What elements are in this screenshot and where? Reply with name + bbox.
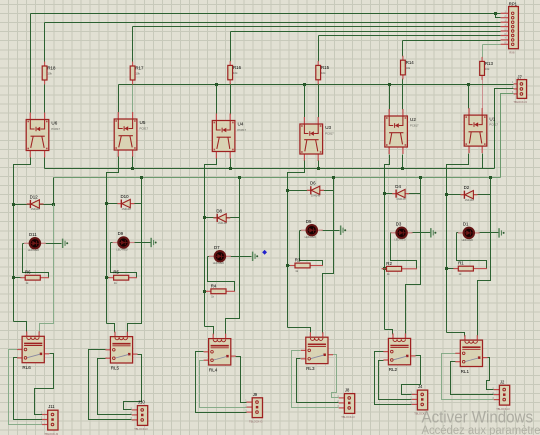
wire D1 cathode to ground <box>479 232 499 234</box>
svg-text:LED-RED: LED-RED <box>28 248 40 252</box>
wire U6 output to bus y168 <box>44 158 46 169</box>
wire R13 to U1 <box>482 80 484 109</box>
wire D1 to R1 <box>457 233 487 269</box>
svg-text:R6: R6 <box>25 270 31 275</box>
resistor R15 <box>316 61 330 84</box>
wire D7 cathode to ground <box>230 256 252 258</box>
wire RP1 pin6 bus to R15 <box>319 35 501 37</box>
svg-text:U3: U3 <box>325 125 331 130</box>
wire U1 emitter-left down to channel-left rail <box>447 154 469 333</box>
ground flag ch2 <box>430 228 436 237</box>
svg-text:1N4148: 1N4148 <box>311 194 321 198</box>
svg-text:PC817: PC817 <box>51 127 60 131</box>
svg-text:LED-RED: LED-RED <box>462 238 474 242</box>
wire D9 cathode to ground <box>134 242 151 244</box>
wire diode bus y177 <box>54 177 501 179</box>
wire R15 top feed <box>318 36 320 62</box>
LED D9 <box>113 231 135 251</box>
wire D6 cathode rail down to RL3 coil <box>323 191 334 334</box>
connector J10 TBLOCK-I3 <box>130 400 148 432</box>
wire RL5 common to J10 pin1 <box>124 355 142 410</box>
wire RL2 common to J4 pin1 <box>402 356 421 395</box>
ground flag ch4 <box>252 252 258 261</box>
wire D5 cathode to ground <box>322 230 340 232</box>
wire D5 to R3 <box>300 231 323 266</box>
diode D2 1N4148 <box>461 185 478 202</box>
svg-text:LED-RED: LED-RED <box>394 238 406 242</box>
svg-text:Accédez aux paramètre: Accédez aux paramètre <box>422 425 540 435</box>
svg-text:1N4148: 1N4148 <box>122 207 132 211</box>
wire D8 row <box>205 217 240 219</box>
svg-text:10k: 10k <box>406 66 411 70</box>
wire R14 to U2 <box>402 79 404 110</box>
op-amp U3 optocoupler PC817 <box>300 117 334 161</box>
wire left rail to RL2 coil+ <box>385 330 393 335</box>
svg-text:D7: D7 <box>214 245 220 250</box>
node marker (blue) near D7 <box>262 250 267 255</box>
svg-text:RL4: RL4 <box>209 367 218 372</box>
LED D7 <box>209 245 231 265</box>
wire rail to U5 input <box>118 85 120 113</box>
svg-text:RL2: RL2 <box>389 367 398 372</box>
wire left rail to RL3 coil+ <box>288 328 311 334</box>
svg-text:RL3: RL3 <box>306 366 315 371</box>
svg-text:R14: R14 <box>406 60 415 65</box>
op-amp U2 optocoupler PC817 <box>385 109 419 154</box>
wire R6 left to rail <box>14 277 22 279</box>
junction bus177 ch2 <box>419 176 422 179</box>
wire R4 left to rail <box>205 291 207 293</box>
svg-text:J4: J4 <box>418 384 423 389</box>
svg-text:D12: D12 <box>30 194 39 199</box>
wire D9 to R5 <box>111 243 137 278</box>
svg-text:TBLOCK-I3: TBLOCK-I3 <box>249 419 263 423</box>
resistor pack RP1 RX8 <box>501 1 519 54</box>
svg-text:U6: U6 <box>51 121 57 126</box>
junction bus177 ch5 <box>140 176 143 179</box>
wire U3 emitter-left down to channel-left rail <box>288 161 305 328</box>
junction R2/left rail <box>383 267 386 270</box>
svg-text:PC817: PC817 <box>489 123 498 127</box>
svg-text:PC817: PC817 <box>140 127 149 131</box>
wire R3 left to rail <box>288 265 291 267</box>
resistor R13 <box>480 57 494 80</box>
svg-text:10k: 10k <box>485 67 490 71</box>
svg-text:1N4148: 1N4148 <box>465 198 475 202</box>
junction rail/U1 <box>467 83 470 86</box>
diode D4 1N4148 <box>392 184 409 201</box>
diode D6 1N4148 <box>307 181 324 198</box>
svg-text:R4: R4 <box>211 283 217 288</box>
wire R5 left to rail <box>107 277 110 279</box>
svg-text:1N4148: 1N4148 <box>31 207 41 211</box>
wire RL1 NO to J2 pin2 <box>451 362 494 395</box>
diode D8 1N4148 <box>213 208 230 225</box>
wire rail to U4 input <box>216 85 218 115</box>
wire U4 output to bus y168 <box>230 159 232 169</box>
svg-text:J7: J7 <box>517 74 522 79</box>
resistor R6 <box>20 270 49 285</box>
svg-text:10k: 10k <box>233 71 238 75</box>
svg-text:TBLOCK-I3: TBLOCK-I3 <box>134 427 148 431</box>
svg-text:D4: D4 <box>395 184 401 189</box>
relay RL1 <box>455 335 487 374</box>
wire left rail to RL4 coil+ <box>205 327 214 335</box>
wire RL5 NC to J10 pin3 <box>89 350 132 420</box>
svg-text:D1: D1 <box>463 222 469 227</box>
relay RL6 <box>17 331 49 370</box>
connector J2 TBLOCK-I3 <box>492 379 510 411</box>
wire emitter bus y168 <box>45 168 495 170</box>
relay RL4 <box>204 334 236 373</box>
wire RL2 NC to J4 pin3 <box>375 352 412 405</box>
wire R16 to U4 <box>230 84 232 115</box>
junction D4 anode/left rail <box>383 192 386 195</box>
svg-text:R3: R3 <box>295 258 301 263</box>
wire left rail to RL6 coil+ <box>14 322 27 333</box>
wire U5 emitter-left down to channel-left rail <box>107 157 119 324</box>
wire R17 to U5 <box>132 85 134 113</box>
wire RP1 pin2 jog <box>496 14 501 18</box>
wire R16 top feed <box>230 32 232 62</box>
wire R18 top feed <box>44 23 46 63</box>
wire bus177 down to D12 <box>53 178 55 205</box>
junction U5/bus168 <box>131 167 134 170</box>
connector J9 TBLOCK-I3 <box>245 392 263 424</box>
svg-text:D8: D8 <box>216 208 222 213</box>
diode D10 1N4148 <box>117 194 134 211</box>
wire R2 left to rail <box>383 268 385 270</box>
wire RP1 pin1 bus <box>31 13 501 15</box>
connector J11 TBLOCK-I3 <box>41 404 59 435</box>
wire U1 output to bus y168 <box>482 154 484 169</box>
wire U2 output to bus y168 <box>402 155 404 169</box>
wire RL1 NC to J2 pin3 <box>442 354 494 400</box>
wire D1 anode <box>457 232 459 234</box>
wire bus177 down to D8 <box>239 178 241 218</box>
connector J4 TBLOCK-I3 <box>410 384 428 416</box>
wire RL4 common to J9 pin1 <box>236 357 247 403</box>
svg-text:RP1: RP1 <box>509 1 518 6</box>
junction U3/bus168 <box>317 167 320 170</box>
wire RP1 pin5 bus to R16 <box>231 31 501 33</box>
diode D12 1N4148 <box>27 194 44 211</box>
LED D5 <box>301 219 323 239</box>
svg-text:D10: D10 <box>121 194 130 199</box>
junction D12 cathode <box>52 203 55 206</box>
wire D12 row <box>14 204 54 206</box>
svg-text:R2: R2 <box>386 261 392 266</box>
wire R1 left to rail <box>447 268 455 270</box>
wire R18 to U6 <box>44 85 46 113</box>
svg-text:R16: R16 <box>233 65 242 70</box>
relay RL3 <box>301 332 333 371</box>
wire RL6 common to J11 pin1 <box>35 354 54 415</box>
svg-text:D6: D6 <box>310 181 316 186</box>
wire J7 pin3 down <box>501 94 514 178</box>
wire bus177 down to D10 <box>141 178 143 204</box>
resistor R18 <box>42 62 56 85</box>
wire RL4 NO to J9 pin2 <box>200 361 247 408</box>
svg-text:J11: J11 <box>48 404 55 409</box>
op-amp U6 optocoupler PC817 <box>26 113 60 158</box>
svg-text:10k: 10k <box>135 72 140 76</box>
wire RP1 pin4 bus to R17 <box>133 26 501 28</box>
wire D9 anode <box>111 242 114 244</box>
wire RL6 NC to J11 pin3 <box>9 350 43 425</box>
wire bus177 down to D4 <box>420 178 422 194</box>
svg-text:J10: J10 <box>138 400 145 405</box>
svg-text:10k: 10k <box>321 71 326 75</box>
wire D2 row <box>447 194 491 196</box>
svg-text:10k: 10k <box>47 72 52 76</box>
wire U3 output to bus y168 <box>318 161 320 169</box>
junction RP1 pin1/pin2 tie <box>494 12 497 15</box>
wire D4 cathode rail down to RL2 coil <box>406 194 421 335</box>
junction U4/bus168 <box>229 167 232 170</box>
wire D3 to R2 <box>391 233 417 269</box>
junction bus177 ch3 <box>332 176 335 179</box>
wire R14 top feed <box>402 41 404 57</box>
wire D10 row <box>107 203 142 205</box>
resistor R16 <box>228 61 242 84</box>
svg-text:D2: D2 <box>464 185 470 190</box>
op-amp U1 optocoupler PC817 <box>464 108 498 153</box>
junction U2/bus168 <box>401 167 404 170</box>
svg-text:U5: U5 <box>140 120 146 125</box>
svg-text:J8: J8 <box>345 388 350 393</box>
junction R1/left rail <box>445 267 448 270</box>
resistor R17 <box>130 62 144 85</box>
wire R15 to U3 <box>318 84 320 118</box>
wire J7 pin2 down <box>495 89 514 169</box>
wire RP1 pin3 bus to R18 <box>45 22 501 24</box>
wire U5 output to bus y168 <box>132 157 134 169</box>
wire R17 top feed <box>132 27 134 63</box>
ground flag ch3 <box>340 226 346 235</box>
wire RL6 NO to J11 pin2 <box>14 358 43 420</box>
svg-text:R5: R5 <box>113 270 119 275</box>
ground flag ch5 <box>150 238 156 247</box>
wire D7 anode <box>208 256 210 258</box>
wire RL3 common to J8 pin1 <box>332 355 339 398</box>
wire R13 top feed <box>482 45 484 58</box>
ground flag ch1 <box>498 228 504 237</box>
svg-text:D3: D3 <box>396 221 402 226</box>
svg-text:LED-RED: LED-RED <box>305 235 317 239</box>
svg-text:D5: D5 <box>306 219 312 224</box>
wire common rail to J7 pin1 <box>119 84 514 86</box>
junction rail/U2 <box>388 83 391 86</box>
LED D3 <box>391 221 413 241</box>
wire bus177 down to D6 <box>333 178 335 191</box>
resistor R2 <box>382 261 418 276</box>
relay RL2 <box>383 333 415 372</box>
svg-text:R17: R17 <box>135 66 144 71</box>
svg-text:RX8: RX8 <box>509 51 515 55</box>
resistor R1 <box>453 261 487 276</box>
junction D12 anode/left rail <box>12 203 15 206</box>
wire rail to U2 input <box>389 85 391 110</box>
svg-text:RL1: RL1 <box>461 369 470 374</box>
wire D2 cathode rail down to RL1 coil <box>478 195 491 337</box>
svg-text:Activer Windows: Activer Windows <box>422 408 534 427</box>
svg-text:PC817: PC817 <box>325 132 334 136</box>
wire U4 emitter-left down to channel-left rail <box>205 159 217 327</box>
wire RP1 pin7 bus to R14 <box>403 40 501 42</box>
wire D4 row <box>385 193 421 195</box>
resistor R14 <box>401 56 415 80</box>
wire RL4 NC to J9 pin3 <box>196 352 247 413</box>
junction D10 anode/left rail <box>105 202 108 205</box>
wire U2 emitter-left down to channel-left rail <box>385 155 390 330</box>
relay RL5 <box>105 332 137 371</box>
svg-text:U2: U2 <box>410 117 416 122</box>
ground flag ch6 <box>62 239 68 248</box>
connector J7 TBLOCK-I3 <box>512 74 527 104</box>
resistor R3 <box>290 258 323 273</box>
op-amp U5 optocoupler PC817 <box>114 112 148 157</box>
svg-text:PC817: PC817 <box>410 124 419 128</box>
wire D11 cathode to ground <box>45 243 62 245</box>
wire D7 to R4 <box>208 257 235 292</box>
wire U6 emitter-left down to channel-left rail <box>14 158 31 322</box>
wire rail to U3 input <box>304 85 306 118</box>
junction R4/left rail <box>203 290 206 293</box>
svg-text:R15: R15 <box>321 65 330 70</box>
wire RL3 NO to J8 pin2 <box>297 359 339 403</box>
connector J8 TBLOCK-I3 <box>337 388 355 420</box>
junction rail/U4 <box>215 83 218 86</box>
svg-text:J9: J9 <box>253 392 258 397</box>
wire bus177 down to D2 <box>490 178 492 195</box>
wire D11 to R6 <box>23 244 49 278</box>
svg-text:R13: R13 <box>485 61 494 66</box>
wire D5 anode <box>300 230 302 232</box>
wire D3 cathode to ground <box>412 232 431 234</box>
op-amp U4 optocoupler PC817 <box>212 114 246 159</box>
resistor R5 <box>109 270 137 285</box>
svg-text:D11: D11 <box>29 232 37 237</box>
resistor R4 <box>206 283 235 298</box>
wire left rail to RL1 coil+ <box>447 333 465 337</box>
LED D1 <box>458 222 480 242</box>
wire RL3 NC to J8 pin3 <box>292 351 339 408</box>
LED D11 <box>24 232 46 252</box>
svg-text:1N4148: 1N4148 <box>217 221 227 225</box>
wire U6 input feed <box>30 14 32 113</box>
svg-text:PC817: PC817 <box>238 128 247 132</box>
wire D6 row <box>288 190 334 192</box>
wire D10 cathode rail down to RL5 coil <box>128 204 142 333</box>
junction bus177 ch1 <box>489 176 492 179</box>
junction D6 anode/left rail <box>286 189 289 192</box>
junction rail/U3 <box>303 83 306 86</box>
wire D3 anode <box>391 232 392 234</box>
wire D11 anode <box>23 243 25 245</box>
junction R3/left rail <box>286 264 289 267</box>
wire RL2 NO to J4 pin2 <box>379 361 412 400</box>
wire D12 cathode rail down to RL6 coil <box>40 205 54 333</box>
junction D2 anode/left rail <box>445 193 448 196</box>
junction R5/left rail <box>105 276 108 279</box>
svg-text:RL6: RL6 <box>22 365 31 370</box>
svg-text:TBLOCK-I3: TBLOCK-I3 <box>513 100 527 104</box>
wire rail to U1 input <box>468 85 470 109</box>
svg-text:1N4148: 1N4148 <box>396 197 406 201</box>
svg-text:R1: R1 <box>458 261 464 266</box>
svg-text:D9: D9 <box>118 231 124 236</box>
svg-text:LED-RED: LED-RED <box>213 261 225 265</box>
junction R6/left rail <box>12 276 15 279</box>
svg-text:LED-RED: LED-RED <box>116 247 128 251</box>
wire RL1 common to J2 pin1 <box>487 358 494 390</box>
junction bus177 ch4 <box>238 176 241 179</box>
svg-text:TBLOCK-I3: TBLOCK-I3 <box>341 415 355 419</box>
svg-text:J2: J2 <box>500 379 505 384</box>
wire D8 cathode rail down to RL4 coil <box>226 218 240 335</box>
svg-text:RL5: RL5 <box>111 365 120 370</box>
wire left rail to RL5 coil+ <box>107 324 115 333</box>
junction D8 anode/left rail <box>203 216 206 219</box>
svg-text:U1: U1 <box>489 116 495 121</box>
wire RL5 NO to J10 pin2 <box>98 359 132 415</box>
wire RP1 pin8 bus to R13 <box>483 44 501 46</box>
svg-text:U4: U4 <box>238 122 244 127</box>
svg-text:R18: R18 <box>47 66 56 71</box>
